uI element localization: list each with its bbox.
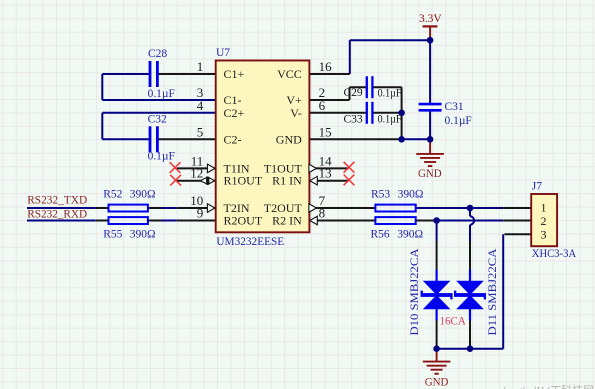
- svg-text:D11 SMBJ22CA: D11 SMBJ22CA: [487, 248, 499, 336]
- svg-text:R1OUT: R1OUT: [224, 174, 263, 188]
- svg-text:VCC: VCC: [277, 67, 302, 81]
- svg-text:RS232_RXD: RS232_RXD: [27, 209, 87, 221]
- svg-text:XHC3-3A: XHC3-3A: [532, 248, 577, 260]
- svg-text:C29: C29: [344, 87, 363, 99]
- svg-text:5: 5: [197, 124, 204, 139]
- svg-text:C1+: C1+: [224, 67, 245, 81]
- svg-text:V-: V-: [290, 106, 302, 120]
- svg-text:4: 4: [197, 98, 204, 113]
- svg-text:C2-: C2-: [224, 132, 242, 146]
- svg-text:J7: J7: [532, 181, 542, 193]
- svg-text:GND: GND: [276, 132, 302, 146]
- svg-text:0.1µF: 0.1µF: [445, 115, 472, 127]
- svg-text:6: 6: [319, 98, 326, 113]
- svg-text:1: 1: [197, 59, 204, 74]
- svg-text:R1 IN: R1 IN: [272, 174, 302, 188]
- svg-text:UM3232EESE: UM3232EESE: [216, 236, 284, 248]
- svg-text:C33: C33: [344, 113, 363, 125]
- svg-text:GND: GND: [418, 168, 442, 180]
- svg-text:390Ω: 390Ω: [130, 189, 156, 201]
- svg-text:2: 2: [541, 214, 547, 228]
- svg-text:390Ω: 390Ω: [397, 228, 423, 240]
- svg-text:C28: C28: [148, 48, 167, 60]
- svg-text:0.1µF: 0.1µF: [148, 88, 175, 100]
- svg-text:0.1µF: 0.1µF: [378, 113, 402, 125]
- svg-text:1: 1: [541, 201, 547, 215]
- svg-text:R53: R53: [371, 188, 390, 200]
- svg-text:390Ω: 390Ω: [130, 228, 156, 240]
- svg-text:3: 3: [541, 227, 547, 241]
- svg-text:U7: U7: [216, 47, 230, 59]
- svg-text:9: 9: [197, 206, 204, 221]
- svg-text:R56: R56: [371, 228, 390, 240]
- svg-text:0.1µF: 0.1µF: [148, 151, 175, 163]
- svg-text:R2OUT: R2OUT: [224, 214, 263, 228]
- svg-text:RS232_TXD: RS232_TXD: [27, 195, 87, 207]
- svg-text:8: 8: [319, 206, 326, 221]
- svg-text:0.1µF: 0.1µF: [378, 87, 402, 99]
- svg-text:R55: R55: [103, 228, 122, 240]
- svg-text:GND: GND: [425, 377, 449, 389]
- svg-text:R2 IN: R2 IN: [272, 214, 302, 228]
- svg-text:12: 12: [190, 166, 203, 181]
- svg-text:16CA: 16CA: [440, 314, 467, 328]
- svg-text:R52: R52: [103, 189, 122, 201]
- svg-text:3.3V: 3.3V: [419, 13, 442, 25]
- svg-text:C2+: C2+: [224, 106, 245, 120]
- svg-text:C32: C32: [148, 113, 167, 125]
- svg-text:C31: C31: [445, 101, 464, 113]
- svg-text:D10 SMBJ22CA: D10 SMBJ22CA: [409, 248, 421, 336]
- svg-text:16: 16: [319, 59, 333, 74]
- svg-text:390Ω: 390Ω: [398, 188, 424, 200]
- svg-text:15: 15: [319, 124, 332, 139]
- svg-text:13: 13: [319, 166, 332, 181]
